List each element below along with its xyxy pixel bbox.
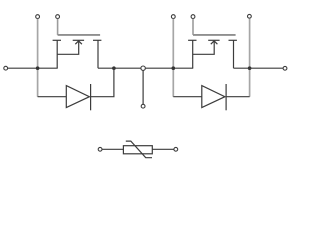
channel drain segment Q2: [229, 39, 237, 41]
thermistor R1 (NTC) body: [123, 141, 152, 158]
wire: bus drain of Q1 to source of Q2 (AC node): [98, 67, 193, 69]
D2 cathode bar: [225, 84, 227, 110]
D2 triangle: [202, 86, 225, 108]
terminal pin 3 (AC node, on-line circle): [141, 66, 145, 70]
body arrow Q2 (N-channel, pointing up): [193, 41, 215, 54]
transistor Q2 (right MOSFET): [188, 35, 237, 68]
terminal pin G2 (gate of right module): [191, 15, 195, 19]
D1 triangle: [66, 86, 89, 108]
wire: D1 anode horizontal: [38, 96, 67, 98]
channel source segment Q1: [53, 39, 61, 41]
terminal pin 5 (top, source-side of right module): [171, 15, 175, 19]
wire: D1 cathode up to bus: [91, 68, 114, 97]
wire: bus source side of Q1: [8, 67, 58, 69]
terminal pin 2 (left edge): [4, 66, 8, 70]
wire: pin 6 down through bus junction to D2 cathode: [249, 19, 251, 97]
junction: D1 cathode to bus: [112, 66, 116, 70]
channel drain segment Q1: [93, 39, 101, 41]
source stem Q1: [56, 40, 58, 68]
wire: gate lead G1: [57, 19, 59, 35]
transistor Q1 (left MOSFET): [53, 35, 102, 68]
junction: pin 6 / bus / D2 cathode: [248, 66, 252, 70]
wire: bus drain side of Q2 to right terminal: [234, 67, 284, 69]
thermistor R1 strike line: [126, 141, 152, 158]
D1 cathode bar: [90, 84, 92, 110]
terminal pin 1 (top-left, drain-side of left module): [36, 15, 40, 19]
terminal pin T1 (thermistor left): [98, 147, 102, 151]
channel body segment Q1: [73, 39, 84, 41]
wire: gate lead G2: [192, 19, 194, 35]
terminal pin G1 (gate of left module): [56, 15, 60, 19]
junction: pin1 / bus / D1 anode: [36, 66, 40, 70]
diode D2 (anti-parallel, right module): [173, 84, 249, 110]
wire: T1 to thermistor body: [102, 148, 123, 150]
channel source segment Q2: [188, 39, 196, 41]
diode D1 (anti-parallel, left module): [38, 68, 114, 110]
junction: pin 5 / bus / D2 anode: [172, 66, 176, 70]
drain stem Q1: [97, 40, 99, 68]
channel body segment Q2: [208, 39, 219, 41]
wire: pin 5 down through bus junction to diode D2 anode: [172, 19, 174, 97]
body arrow Q1 (N-channel, pointing up): [57, 41, 78, 54]
wire: thermistor body to T2: [152, 148, 173, 150]
wire: D2 cathode to bus junction: [226, 96, 250, 98]
terminal pin 7 (right edge): [283, 66, 287, 70]
wire: pin 1 down through bus junction to diode D1 anode: [37, 19, 39, 97]
wire: D2 anode horizontal: [173, 96, 202, 98]
terminal pin 4 (AC bottom pin): [141, 104, 145, 108]
terminal pin 6 (top, drain-side of right module): [248, 14, 252, 18]
terminal pin T2 (thermistor right): [174, 147, 178, 151]
gate bar Q2: [193, 34, 236, 36]
wire: AC node down to pin 4: [142, 70, 144, 104]
gate bar Q1: [58, 34, 101, 36]
drain stem Q2: [233, 40, 235, 68]
source stem Q2: [192, 40, 194, 68]
